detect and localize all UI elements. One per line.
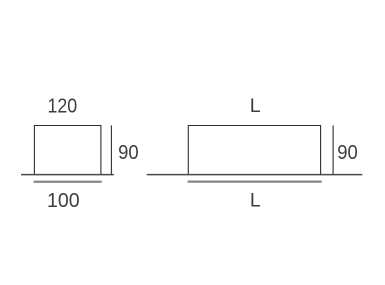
left profile housing outline	[34, 126, 101, 175]
label 100 (bottom cut-out dimension, left profile)	[47, 190, 80, 212]
svg-text:90: 90	[337, 142, 358, 164]
svg-text:L: L	[250, 95, 261, 117]
right recess cut-out line (gray)	[188, 180, 322, 182]
label 120 (top width dimension, left profile)	[47, 96, 77, 118]
right height dimension line (90)	[332, 125, 334, 174]
svg-text:90: 90	[118, 142, 139, 164]
label L (bottom cut-out dimension, right profile)	[250, 190, 261, 212]
label 90 (height dimension, right profile)	[337, 142, 358, 164]
label 90 (height dimension, left profile)	[118, 142, 139, 164]
svg-text:L: L	[250, 190, 261, 212]
svg-text:120: 120	[47, 96, 77, 118]
left height dimension line (90)	[110, 125, 112, 174]
label L (top length dimension, right profile)	[250, 95, 261, 117]
left ceiling line	[21, 174, 114, 176]
right ceiling line	[147, 174, 362, 176]
right profile housing outline	[188, 126, 320, 175]
left recess cut-out line (gray)	[34, 181, 102, 183]
svg-text:100: 100	[47, 190, 80, 212]
